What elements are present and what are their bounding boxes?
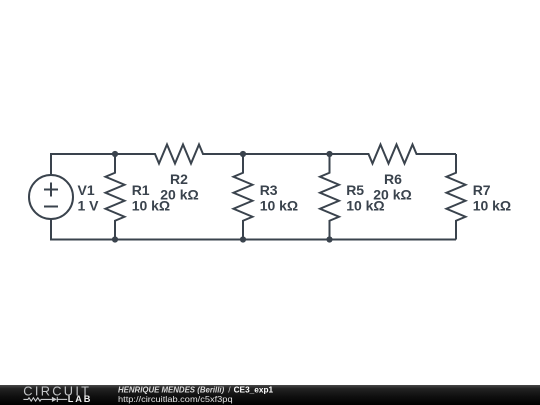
svg-text:CE3_exp1: CE3_exp1: [234, 384, 274, 394]
wire: bottom rail segment 1: [115, 239, 243, 241]
svg-text:1 V: 1 V: [78, 198, 100, 214]
wire: bottom rail segment 2: [243, 239, 330, 241]
svg-text:10 kΩ: 10 kΩ: [473, 198, 511, 214]
svg-text:R1: R1: [132, 182, 150, 198]
resistor R7: [447, 154, 466, 240]
svg-text:LAB: LAB: [68, 394, 93, 404]
svg-text:R3: R3: [260, 182, 278, 198]
resistor R6: [330, 145, 457, 164]
svg-text:R5: R5: [346, 182, 364, 198]
wire: node B top rail: [243, 153, 330, 155]
junction: node A top: [112, 151, 118, 157]
svg-text:R7: R7: [473, 182, 491, 198]
resistor R3: [234, 154, 253, 240]
wire: V1 top lead to node A: [51, 154, 115, 176]
svg-text:HENRIQUE MENDES (Berilli): HENRIQUE MENDES (Berilli): [118, 384, 224, 394]
voltage source V1: [29, 175, 73, 219]
logo resistor-diode glyph: [23, 397, 67, 402]
logo CIRCUIT wordmark: [23, 383, 91, 398]
logo diode triangle: [52, 397, 57, 402]
junction: node C top: [326, 151, 332, 157]
svg-text:V1: V1: [78, 182, 95, 198]
footer bar: [0, 385, 540, 405]
wire: V1 bottom lead: [51, 219, 115, 240]
svg-text:R6: R6: [384, 171, 402, 187]
resistor R2: [115, 145, 243, 164]
svg-text:http://circuitlab.com/c5xf3pq: http://circuitlab.com/c5xf3pq: [118, 394, 233, 404]
junction: node B top: [240, 151, 246, 157]
resistor R1: [106, 154, 125, 240]
svg-text:20 kΩ: 20 kΩ: [373, 187, 411, 203]
junction: node B bottom: [240, 236, 246, 242]
junction: node A bottom: [112, 236, 118, 242]
resistor R5: [320, 154, 339, 240]
junction: node C bottom: [326, 236, 332, 242]
svg-text:20 kΩ: 20 kΩ: [160, 187, 198, 203]
wire: bottom rail segment 3: [330, 239, 457, 241]
svg-text:R2: R2: [170, 171, 188, 187]
svg-text:10 kΩ: 10 kΩ: [260, 198, 298, 214]
